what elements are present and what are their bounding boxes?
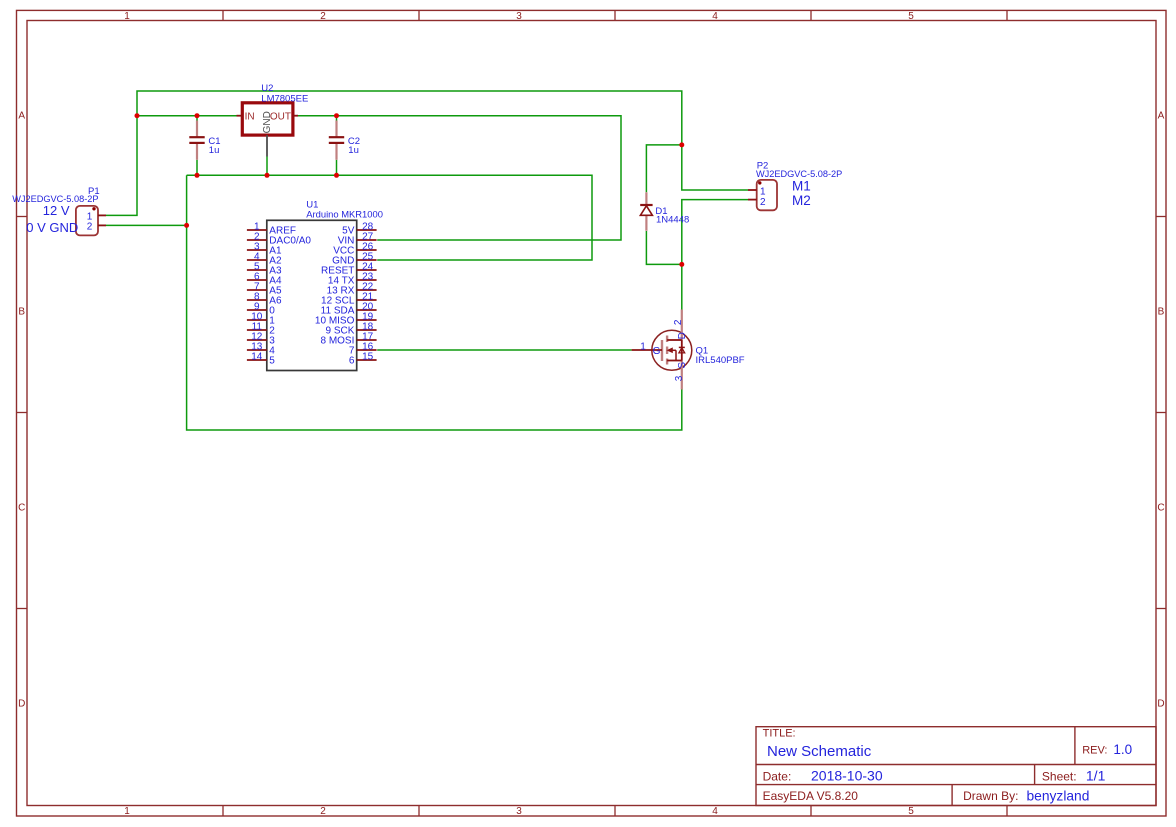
svg-text:EasyEDA V5.8.20: EasyEDA V5.8.20 <box>763 789 859 803</box>
svg-text:A: A <box>1158 111 1165 122</box>
svg-text:D: D <box>677 332 688 339</box>
svg-text:G: G <box>653 346 661 357</box>
Q1 pin3 number <box>674 375 685 381</box>
svg-text:benyzland: benyzland <box>1027 789 1090 804</box>
svg-text:6: 6 <box>349 356 355 367</box>
wire GND rail to U1 GND pin25 <box>187 175 592 260</box>
svg-text:3: 3 <box>516 11 522 22</box>
label C2 value 1u <box>348 145 359 156</box>
svg-text:M2: M2 <box>792 193 811 208</box>
svg-text:5: 5 <box>908 11 914 22</box>
junction 12V rail / U2 IN <box>135 113 140 118</box>
svg-text:4: 4 <box>712 806 718 817</box>
svg-text:2: 2 <box>87 222 93 233</box>
wire U2 GND to rail <box>266 157 268 176</box>
junction C1 bottom GND rail <box>195 173 200 178</box>
svg-text:1.0: 1.0 <box>1113 742 1132 757</box>
label D1 refdes <box>655 206 667 217</box>
label Q1 refdes <box>696 346 709 357</box>
Q1 gate name G <box>653 346 661 357</box>
junction P1 pin2 GND loop <box>184 223 189 228</box>
wire U1 pin16 to Q1 gate <box>377 349 631 351</box>
svg-text:TITLE:: TITLE: <box>763 728 796 740</box>
label U2 value LM7805EE <box>261 93 308 104</box>
svg-text:B: B <box>18 307 25 318</box>
junction D1 anode / drain node <box>679 262 684 267</box>
label P2 refdes <box>757 161 769 172</box>
junction D1 cathode node <box>679 142 684 147</box>
capacitor C1 <box>189 121 204 160</box>
wire C2 bottom stub <box>336 160 338 176</box>
label C1 refdes <box>208 136 220 147</box>
wire C2 top stub <box>336 116 338 121</box>
svg-text:3: 3 <box>674 375 685 381</box>
svg-text:D: D <box>18 699 25 710</box>
svg-text:1: 1 <box>640 342 646 353</box>
wire P2 pin2 to Q1 drain <box>682 200 748 310</box>
svg-text:A: A <box>18 111 25 122</box>
voltage regulator U2 LM7805EE <box>237 103 299 157</box>
svg-text:1u: 1u <box>209 145 220 156</box>
svg-text:Date:: Date: <box>763 769 792 783</box>
capacitor C2 <box>329 121 344 160</box>
svg-text:1u: 1u <box>348 145 359 156</box>
svg-text:2: 2 <box>760 197 766 208</box>
svg-text:IRL540PBF: IRL540PBF <box>696 355 745 366</box>
Q1 pin2 number <box>673 319 684 325</box>
diode D1 1N4448 <box>640 192 652 231</box>
junction U2 GND rail <box>265 173 270 178</box>
wire D1 cathode branch <box>646 145 681 192</box>
svg-text:5: 5 <box>908 806 914 817</box>
net label 0 V GND <box>26 220 78 235</box>
svg-text:REV:: REV: <box>1082 745 1107 757</box>
transistor Q1 IRL540PBF N-MOSFET <box>632 310 692 390</box>
label U2 refdes <box>261 83 273 94</box>
svg-text:0 V GND: 0 V GND <box>26 220 78 235</box>
svg-text:M1: M1 <box>792 178 811 193</box>
svg-text:S: S <box>677 362 688 369</box>
junction C2 bottom GND rail <box>334 173 339 178</box>
label C1 value 1u <box>209 145 220 156</box>
svg-text:1/1: 1/1 <box>1086 768 1106 784</box>
IC U1 Arduino MKR1000 <box>247 220 377 370</box>
net label M2 <box>792 193 811 208</box>
svg-text:Drawn By:: Drawn By: <box>963 789 1018 803</box>
label Q1 value IRL540PBF <box>696 355 745 366</box>
svg-text:15: 15 <box>362 351 374 362</box>
label D1 value 1N4448 <box>656 215 689 226</box>
wire C1 bottom stub <box>196 160 198 176</box>
label U1 refdes <box>306 200 318 211</box>
wire D1 anode branch <box>646 231 681 264</box>
Q1 pin1 number <box>640 342 646 353</box>
svg-text:14: 14 <box>251 351 263 362</box>
svg-text:4: 4 <box>712 11 718 22</box>
svg-text:GND: GND <box>262 111 273 133</box>
svg-text:1N4448: 1N4448 <box>656 215 689 226</box>
wire P1 pin1 to 12V top rail to P2 pin1 <box>106 91 748 215</box>
svg-text:Sheet:: Sheet: <box>1042 769 1077 783</box>
label C2 refdes <box>348 136 360 147</box>
label P1 refdes <box>88 186 100 197</box>
Q1 source name S <box>677 362 688 369</box>
svg-text:C: C <box>18 503 25 514</box>
svg-text:2: 2 <box>673 319 684 325</box>
label P1 part number <box>12 194 98 204</box>
label P2 part number <box>756 169 842 179</box>
svg-text:New Schematic: New Schematic <box>767 743 872 760</box>
svg-text:C: C <box>1157 503 1164 514</box>
net label 12 V <box>43 203 70 218</box>
svg-text:IN: IN <box>245 111 255 122</box>
junction C2 top <box>334 113 339 118</box>
title block <box>756 727 1156 806</box>
svg-text:Arduino MKR1000: Arduino MKR1000 <box>306 208 383 219</box>
svg-text:3: 3 <box>516 806 522 817</box>
wire 12V rail to U2 IN <box>137 115 237 117</box>
svg-text:D: D <box>1157 699 1164 710</box>
svg-text:LM7805EE: LM7805EE <box>261 93 308 104</box>
wire C1 top stub <box>196 116 198 121</box>
net label M1 <box>792 178 811 193</box>
svg-text:2018-10-30: 2018-10-30 <box>811 768 883 784</box>
Q1 drain name D <box>677 332 688 339</box>
svg-text:12 V: 12 V <box>43 203 70 218</box>
svg-text:2: 2 <box>320 806 326 817</box>
junction C1 top <box>195 113 200 118</box>
svg-text:B: B <box>1158 307 1165 318</box>
label U1 value Arduino MKR1000 <box>306 208 383 219</box>
connector P2 WJ2EDGVC-5.08-2P <box>748 180 777 210</box>
svg-text:1: 1 <box>124 806 130 817</box>
wire GND loop to Q1 source <box>187 175 682 430</box>
wire P1 pin2 to GND node <box>106 224 187 226</box>
wire U2 OUT to U1 VIN <box>298 116 621 240</box>
svg-text:1: 1 <box>124 11 130 22</box>
svg-text:5: 5 <box>269 356 275 367</box>
connector P1 WJ2EDGVC-5.08-2P <box>76 206 106 236</box>
svg-text:2: 2 <box>320 11 326 22</box>
